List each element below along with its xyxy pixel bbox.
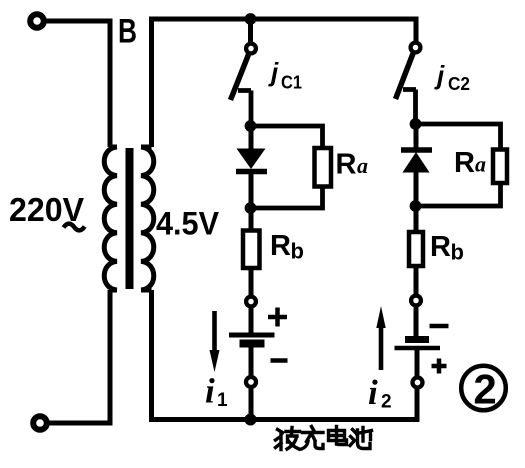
current arrow i2 (up): [376, 306, 385, 370]
switch jC2 stub wire: [403, 90, 416, 125]
node A1 (diode top junction): [245, 120, 257, 132]
label i2: [368, 373, 392, 413]
svg-text:R: R: [454, 147, 475, 179]
svg-text:i: i: [368, 373, 378, 412]
svg-text:j: j: [434, 60, 445, 90]
label + battery1: [268, 308, 287, 327]
diode D2 (pointing up): [401, 147, 432, 153]
svg-text:2: 2: [381, 392, 392, 413]
wire Ra1 parallel branch top: [251, 126, 323, 150]
battery2 bottom terminal circle: [413, 378, 423, 388]
transformer secondary coil: [141, 147, 154, 290]
label - battery1: [271, 358, 288, 363]
resistor Rb (branch 1): [243, 231, 260, 269]
wire diode2 cathode lead: [414, 124, 419, 150]
resistor Ra (branch 2): [493, 150, 507, 184]
label jC1: [268, 57, 302, 93]
svg-text:b: b: [451, 240, 464, 265]
battery G2 plates (- up): [405, 336, 429, 343]
terminal bottom-left: [33, 416, 47, 430]
wire primary bottom: terminal to transformer: [47, 290, 110, 423]
node B2 (diode bottom junction): [410, 200, 422, 212]
wire diode2 anode lead: [414, 173, 419, 207]
label - battery2: [430, 324, 449, 329]
wire secondary top bus: [152, 19, 417, 147]
label Ra branch2: [454, 147, 486, 179]
battery2 top terminal circle: [411, 296, 421, 306]
svg-text:R: R: [336, 149, 357, 181]
label Ra branch1: [336, 149, 369, 181]
label ~ (AC): [64, 224, 85, 231]
label jC2: [434, 60, 470, 94]
wire battery1 to bottom bus: [249, 389, 254, 420]
wire diode1 anode lead: [249, 126, 254, 150]
svg-text:2: 2: [473, 366, 496, 413]
figure number circled 2: [461, 366, 506, 413]
wire Ra1 parallel branch bottom: [251, 187, 323, 209]
transformer T primary coil: [104, 147, 117, 290]
svg-text:R: R: [270, 230, 291, 262]
battery1 top terminal circle: [246, 297, 256, 307]
wire Rb2 to battery terminal: [414, 266, 419, 294]
terminal top-left: [30, 14, 44, 28]
switch jC1 stub wire: [238, 91, 251, 127]
label Rb branch2: [430, 231, 464, 265]
wire secondary bottom bus: [152, 290, 418, 420]
svg-text:C1: C1: [281, 73, 302, 93]
svg-text:i: i: [205, 372, 215, 411]
wire primary top: terminal to transformer: [44, 21, 110, 147]
node junction top branch 1: [245, 13, 257, 25]
svg-text:C2: C2: [448, 74, 470, 94]
svg-text:a: a: [357, 153, 368, 178]
svg-text:1: 1: [217, 390, 228, 411]
wire Ra2 parallel branch bottom: [416, 183, 501, 206]
svg-text:R: R: [430, 231, 451, 263]
wire diode1 cathode lead: [249, 172, 254, 208]
svg-text:j: j: [268, 57, 279, 87]
label i1: [205, 372, 228, 412]
switch jC1 contact circle: [246, 44, 256, 54]
wire terminal to battery2: [414, 307, 419, 336]
wire Ra2 parallel branch top: [416, 124, 501, 150]
resistor Ra (branch 1): [315, 148, 332, 187]
wire Rb1 to battery terminal: [249, 268, 254, 295]
wire battery2 to bottom terminal: [415, 350, 420, 376]
diode D1 (pointing down): [237, 149, 266, 170]
wire battery1 to bottom terminal: [249, 348, 254, 376]
transformer core: [126, 148, 134, 289]
current arrow i1 (down): [210, 311, 220, 372]
wire terminal to battery1: [249, 308, 254, 333]
switch jC1 arm: [231, 55, 249, 101]
wire node B1 to Rb1: [249, 208, 254, 231]
resistor Rb (branch 2): [409, 232, 423, 266]
node A2 (diode top junction): [410, 118, 422, 130]
node B1 (diode bottom junction): [245, 202, 257, 214]
label + battery2: [432, 359, 447, 374]
label Rb branch1: [270, 230, 304, 264]
svg-text:4.5V: 4.5V: [156, 206, 220, 242]
svg-text:a: a: [475, 152, 486, 177]
wire node B2 to Rb2: [414, 206, 419, 232]
svg-text:B: B: [118, 13, 137, 51]
battery G1 plates (+ up): [229, 333, 275, 338]
svg-text:b: b: [291, 239, 304, 264]
wire branch1 drop to switch: [248, 19, 253, 42]
switch jC2 arm: [396, 54, 414, 100]
svg-text:220V: 220V: [9, 191, 84, 228]
battery1 bottom terminal circle: [246, 377, 256, 387]
node junction bottom branch1: [245, 414, 257, 426]
switch jC2 contact circle: [411, 43, 421, 53]
label 被充电池 (charged battery), drawn strokes: [276, 427, 372, 450]
